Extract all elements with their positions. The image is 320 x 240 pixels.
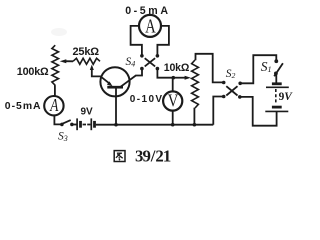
faint smudge xyxy=(51,28,67,36)
battery B1 9V left xyxy=(77,118,94,130)
wire S1 to battery xyxy=(275,75,277,84)
svg-text:S4: S4 xyxy=(126,56,136,69)
wire R1 to ammeter A2 xyxy=(54,85,56,96)
wire S4 to wiper of R3 xyxy=(157,69,173,78)
wire V top xyxy=(172,78,174,92)
wiper arrow of R1 xyxy=(60,59,73,63)
svg-text:S3: S3 xyxy=(58,131,68,144)
switch S2 xyxy=(222,81,242,99)
svg-text:0-10V: 0-10V xyxy=(130,94,164,105)
wire collector to S4 xyxy=(136,69,143,76)
svg-text:0-5mA: 0-5mA xyxy=(125,5,170,17)
wiper arrow of R3 xyxy=(173,76,191,80)
svg-text:25kΩ: 25kΩ xyxy=(73,46,100,58)
transistor Q1 xyxy=(100,67,136,124)
svg-text:9V: 9V xyxy=(81,107,94,118)
svg-text:V: V xyxy=(168,93,179,111)
switch S1 xyxy=(274,59,283,76)
resistor R3 10kΩ xyxy=(192,60,199,108)
ammeter A1 (0-5mA top) xyxy=(139,14,161,37)
wire S2 LL to bottom rail xyxy=(213,97,222,125)
wires S4 to ammeter A1 xyxy=(131,26,142,55)
node V bottom xyxy=(171,123,175,127)
caption 图 glyph xyxy=(114,151,125,162)
node R3 bottom xyxy=(193,123,197,127)
voltmeter V1 xyxy=(163,91,182,111)
switch S4 xyxy=(140,54,159,70)
resistor R2 25kΩ xyxy=(73,58,100,64)
svg-text:9V: 9V xyxy=(279,91,294,103)
svg-text:10kΩ: 10kΩ xyxy=(164,62,190,74)
wire A2 to S3 xyxy=(54,115,60,124)
resistor R1 100kΩ xyxy=(52,45,59,85)
wire S2 UR to S1 xyxy=(241,55,276,83)
bottom rail xyxy=(96,124,214,126)
wire S2 LR to battery bottom xyxy=(241,97,277,126)
wiper arrow of R2 to base xyxy=(90,65,101,77)
svg-text:0-5mA: 0-5mA xyxy=(5,101,42,112)
wire R3 top to S2 xyxy=(196,54,223,83)
svg-text:39/21: 39/21 xyxy=(135,146,171,165)
wire R3 bottom to bottom rail xyxy=(193,108,195,125)
svg-text:100kΩ: 100kΩ xyxy=(17,66,49,78)
ammeter A2 (0-5mA left) xyxy=(44,96,63,116)
switch S3 xyxy=(60,120,74,126)
node base-emitter junction xyxy=(114,123,118,127)
wire S3 to battery B1 xyxy=(73,124,77,126)
svg-text:A: A xyxy=(49,96,58,116)
node wiper junction xyxy=(172,76,176,80)
svg-text:S1: S1 xyxy=(261,59,272,74)
svg-text:S2: S2 xyxy=(226,68,236,80)
svg-text:A: A xyxy=(145,14,156,37)
wire V bottom xyxy=(172,111,174,125)
battery B2 9V right xyxy=(265,84,289,112)
